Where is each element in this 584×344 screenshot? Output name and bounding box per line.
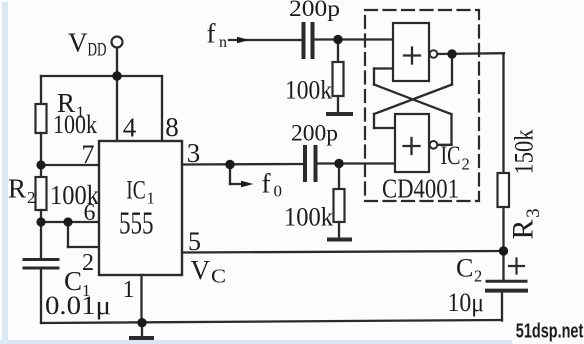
svg-text:V: V — [191, 255, 211, 285]
svg-text:150k: 150k — [510, 130, 539, 175]
svg-text:n: n — [219, 34, 227, 51]
svg-text:C: C — [211, 266, 226, 288]
svg-text:R: R — [507, 219, 540, 239]
svg-text:0: 0 — [274, 182, 283, 201]
svg-text:IC: IC — [126, 176, 146, 205]
svg-text:3: 3 — [187, 138, 201, 168]
svg-text:4: 4 — [123, 113, 137, 143]
svg-text:2: 2 — [462, 155, 470, 174]
svg-text:C: C — [456, 254, 473, 283]
svg-text:2: 2 — [474, 267, 482, 286]
svg-text:1: 1 — [123, 277, 135, 303]
svg-text:5: 5 — [188, 227, 201, 256]
svg-text:IC: IC — [441, 141, 461, 170]
svg-text:6: 6 — [84, 200, 96, 226]
svg-text:10μ: 10μ — [448, 288, 485, 317]
svg-text:R: R — [8, 174, 26, 204]
svg-text:7: 7 — [82, 140, 95, 169]
svg-text:2: 2 — [82, 250, 94, 276]
svg-text:f: f — [262, 169, 271, 199]
svg-text:3: 3 — [523, 208, 544, 218]
svg-text:0.01μ: 0.01μ — [45, 291, 111, 320]
svg-text:DD: DD — [88, 41, 107, 61]
svg-text:200p: 200p — [289, 0, 340, 21]
svg-text:555: 555 — [119, 205, 154, 241]
svg-text:100k: 100k — [285, 76, 332, 105]
svg-text:100k: 100k — [284, 203, 333, 232]
svg-text:V: V — [68, 28, 88, 58]
svg-text:2: 2 — [27, 188, 36, 207]
svg-text:f: f — [207, 19, 216, 49]
svg-text:CD4001: CD4001 — [382, 174, 459, 204]
svg-text:200p: 200p — [291, 121, 338, 146]
svg-text:100k: 100k — [53, 110, 97, 139]
svg-text:51dsp.net: 51dsp.net — [516, 320, 584, 343]
svg-text:8: 8 — [165, 112, 179, 142]
